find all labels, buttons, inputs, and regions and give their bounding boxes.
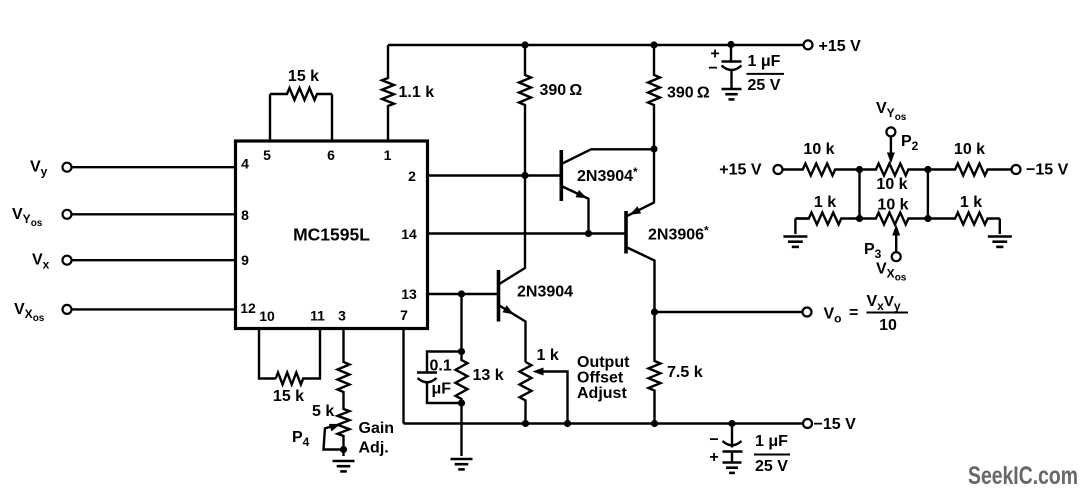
svg-text:8: 8 [241,207,249,223]
svg-text:=: = [849,305,858,322]
svg-text:5 k: 5 k [312,403,334,420]
svg-text:25 V: 25 V [748,77,781,94]
svg-text:10: 10 [259,308,275,324]
svg-text:15 k: 15 k [288,68,319,85]
svg-text:7: 7 [400,307,408,323]
svg-text:1 μF: 1 μF [748,53,781,70]
svg-text:6: 6 [327,147,335,163]
svg-text:Offset: Offset [577,369,624,386]
svg-text:12: 12 [240,300,256,316]
svg-text:7.5 k: 7.5 k [667,364,703,381]
svg-text:−15 V: −15 V [814,416,857,433]
svg-text:Adj.: Adj. [359,440,389,457]
svg-text:+15 V: +15 V [819,38,862,55]
svg-text:1: 1 [384,147,392,163]
svg-text:1 k: 1 k [537,347,559,364]
svg-text:2N3904: 2N3904 [517,284,573,301]
svg-text:μF: μF [432,381,452,398]
svg-text:2N3906*: 2N3906* [648,224,709,244]
svg-text:10 k: 10 k [876,176,907,193]
svg-text:2: 2 [408,168,416,184]
svg-text:9: 9 [241,252,249,268]
svg-text:+15 V: +15 V [719,162,762,179]
svg-text:11: 11 [310,308,325,324]
svg-text:−15 V: −15 V [1026,162,1069,179]
svg-text:390 Ω: 390 Ω [667,85,710,102]
svg-text:390 Ω: 390 Ω [540,82,583,99]
svg-text:1.1 k: 1.1 k [399,84,435,101]
svg-text:10: 10 [879,317,897,334]
svg-text:3: 3 [338,308,346,324]
svg-text:1 μF: 1 μF [755,433,788,450]
svg-text:13 k: 13 k [473,367,504,384]
svg-text:Gain: Gain [359,420,395,437]
svg-text:Adjust: Adjust [577,385,627,402]
svg-text:−: − [709,432,718,449]
svg-text:+: + [709,449,718,466]
svg-text:2N3904*: 2N3904* [577,165,638,185]
svg-text:MC1595L: MC1595L [293,225,370,245]
svg-text:1 k: 1 k [814,194,836,211]
svg-text:25 V: 25 V [755,458,788,475]
svg-text:10 k: 10 k [954,141,985,158]
svg-text:−: − [708,60,717,77]
svg-text:1 k: 1 k [960,194,982,211]
svg-text:SeekIC.com: SeekIC.com [968,462,1078,490]
svg-text:10 k: 10 k [803,141,834,158]
svg-text:5: 5 [263,147,271,163]
svg-text:15 k: 15 k [273,388,304,405]
svg-text:13: 13 [401,286,417,302]
svg-text:4: 4 [241,156,249,172]
svg-text:10 k: 10 k [877,196,908,213]
svg-text:14: 14 [401,226,417,242]
svg-text:0.1: 0.1 [430,358,452,375]
